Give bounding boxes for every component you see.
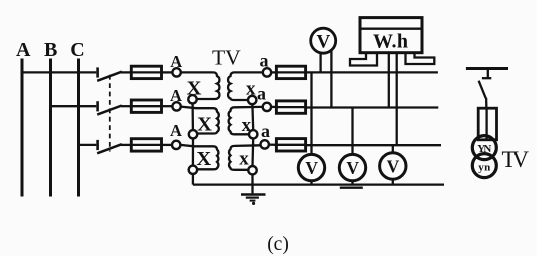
disconnector QS row1 blade [97, 72, 122, 81]
watt-hour meter W.h box [360, 18, 422, 53]
terminal x3 [248, 166, 256, 174]
wire row3 blade to fuse [121, 144, 131, 146]
svg-text:a: a [261, 121, 270, 141]
wire X1 to X2 (primary neutral chain) [191, 104, 194, 131]
terminal x1 [248, 96, 256, 104]
svg-text:TV: TV [502, 147, 530, 172]
terminal A3 [172, 141, 180, 149]
terminal x2 [249, 130, 257, 138]
wire through fuse FU1 [131, 71, 161, 73]
wire PV3 to neutral [392, 179, 394, 185]
ground earth bar short [250, 200, 256, 202]
wire X2 to X3 (primary neutral chain) [192, 139, 194, 166]
right circuit: transformer winding yn [472, 154, 496, 178]
wire fuse FU1 to terminal A1 [162, 71, 173, 73]
wire bus c down to voltmeter PV3 [392, 145, 394, 153]
terminal A1 [172, 68, 180, 76]
wire fuse FU2 to terminal A2 [162, 105, 173, 107]
svg-text:V: V [317, 32, 331, 53]
wire through fuse FU6 [276, 144, 305, 146]
svg-text:X: X [196, 148, 211, 170]
voltmeter PV3 [380, 153, 406, 179]
wire secondary bus a [306, 71, 438, 73]
svg-text:X: X [197, 113, 212, 135]
right circuit: bus segment [466, 67, 508, 70]
busbar phase B [49, 59, 52, 197]
voltmeter PV2 [339, 154, 365, 180]
disconnector QS row3 blade [97, 144, 122, 153]
wire through fuse FU5 [276, 106, 305, 108]
svg-text:C: C [70, 39, 84, 61]
ground earth bar long [241, 193, 266, 196]
wire x3 down to earth [251, 174, 253, 193]
svg-text:W.h: W.h [373, 30, 408, 52]
right circuit: wire blade to fuse [485, 98, 488, 109]
wire secondary bus b [306, 106, 439, 108]
transformer TV1 secondary winding [228, 72, 263, 100]
wire tap row1 from busbar A [22, 71, 96, 73]
right circuit: fuse FU7 [478, 108, 496, 140]
wire bus b down to voltmeter PV2 [351, 108, 353, 155]
disconnector QS row2 fixed contact [96, 101, 99, 111]
wire x1 to x2 (secondary neutral chain) [251, 104, 254, 130]
disconnector QS row2 blade [97, 106, 122, 115]
wire X3 down to neutral corner [192, 174, 194, 185]
wire PV2 to neutral [351, 181, 353, 185]
wire W.h right current jumper (terminals 5-6) [406, 53, 435, 64]
wire tap row3 from busbar C [79, 144, 97, 146]
wire row2 blade to fuse [121, 105, 131, 107]
wire fuse FU3 to terminal A3 [162, 144, 173, 146]
neutral thick segment under PV2 [340, 186, 363, 188]
wire secondary bus c [306, 144, 441, 146]
wire PV0 left lead to bus a [319, 54, 321, 73]
busbar phase C [77, 59, 80, 197]
ground earth dot [252, 202, 255, 205]
svg-text:a: a [257, 84, 266, 104]
fuse FU3 row3 [131, 139, 161, 151]
wire through fuse FU2 [131, 105, 161, 107]
wire PV0 right lead to bus b [330, 51, 332, 108]
wire neutral bus n [193, 183, 444, 185]
wire W.h left current jumper (terminals 1-2) [350, 53, 377, 66]
wire row1 blade to fuse [121, 71, 131, 73]
svg-text:B: B [44, 39, 57, 61]
terminal A2 [172, 102, 180, 110]
wire bus a down to voltmeter PV1 [310, 72, 312, 154]
fuse FU4 secondary row1 [276, 66, 305, 78]
wire x2 to x3 (secondary neutral chain) [251, 139, 254, 167]
transformer TV1 primary winding [181, 72, 220, 99]
wire PV1 to neutral [310, 181, 312, 185]
terminal a1 [263, 68, 271, 76]
right circuit: disconnector blade [479, 81, 486, 99]
terminal X3 [189, 166, 197, 174]
svg-text:(c): (c) [267, 234, 289, 255]
fuse FU1 row1 [131, 66, 161, 78]
svg-text:x: x [239, 149, 249, 170]
terminal a3 [261, 140, 269, 148]
svg-text:yn: yn [478, 162, 490, 174]
right circuit: transformer winding YN [472, 136, 496, 160]
wire a3 to fuse FU6 [269, 143, 277, 145]
right circuit: wire through fuse [485, 109, 487, 141]
wire W.h voltage lead to bus b [388, 53, 390, 108]
busbar phase A [21, 59, 24, 197]
svg-text:A: A [16, 39, 31, 61]
transformer TV3 secondary winding [229, 145, 260, 170]
right circuit: disconnector stub [487, 69, 489, 78]
watt-hour meter inner top line [361, 28, 421, 30]
fuse FU6 secondary row3 [276, 139, 305, 151]
fuse FU5 secondary row2 [276, 101, 305, 113]
svg-text:A: A [170, 121, 182, 140]
fuse FU2 row2 [131, 100, 161, 112]
wire a2 to fuse FU5 [271, 106, 276, 108]
wire tap row2 from busbar B [51, 105, 97, 107]
wire through fuse FU4 [276, 71, 305, 73]
transformer TV2 primary winding [181, 107, 219, 134]
disconnector gang linkage (dashed) [109, 75, 111, 152]
svg-text:V: V [305, 158, 318, 178]
terminal X1 [188, 95, 196, 103]
disconnector QS row1 fixed contact [96, 67, 99, 77]
wire W.h voltage lead to bus c [396, 53, 398, 146]
terminal X2 [189, 130, 197, 138]
voltmeter PV1 [298, 154, 324, 180]
wire a1 to fuse FU4 [271, 71, 276, 73]
transformer TV3 primary winding [180, 145, 218, 169]
transformer TV2 secondary winding [229, 107, 263, 134]
voltmeter PV0 (top) [311, 28, 336, 53]
wire through fuse FU3 [131, 144, 161, 146]
svg-text:V: V [346, 158, 359, 178]
disconnector QS row3 fixed contact [96, 140, 99, 150]
right circuit: disconnector fixed contact tick [482, 77, 491, 79]
terminal a2 [263, 103, 271, 111]
svg-text:TV: TV [212, 45, 241, 69]
svg-text:V: V [387, 157, 400, 177]
ground earth bar middle [246, 197, 259, 199]
